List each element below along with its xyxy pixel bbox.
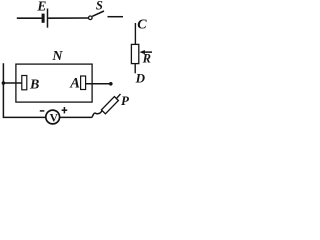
svg-text:V: V	[50, 112, 59, 124]
terminal B	[22, 76, 27, 90]
wire: switch right lead	[108, 16, 124, 18]
terminal A	[81, 76, 86, 90]
wire: rheostat down	[134, 64, 136, 74]
box N	[16, 64, 92, 102]
B label	[29, 78, 39, 93]
svg-text:P: P	[121, 93, 130, 108]
svg-text:S: S	[96, 0, 103, 12]
wire: left vertical + bottom run	[3, 63, 45, 117]
wire: B lead	[3, 82, 21, 84]
node C label	[137, 17, 147, 32]
P label	[121, 93, 130, 108]
voltmeter minus polarity	[40, 110, 45, 112]
wire: battery left lead	[17, 17, 42, 19]
wire: A lead	[86, 83, 111, 85]
svg-text:A: A	[69, 75, 80, 91]
terminal node (right of A lead)	[109, 82, 113, 86]
A label	[69, 75, 80, 91]
arrow of rheostat R	[140, 50, 153, 54]
resistor P (diagonal body)	[100, 94, 121, 114]
svg-text:E: E	[36, 0, 46, 13]
wire: battery to switch	[48, 17, 88, 19]
node D label	[135, 70, 146, 85]
voltmeter V	[46, 110, 60, 124]
R value label	[142, 52, 151, 66]
svg-text:N: N	[51, 49, 63, 64]
wire: C down to rheostat	[134, 23, 136, 45]
svg-text:C: C	[137, 17, 147, 32]
voltmeter plus polarity	[62, 107, 68, 113]
battery E	[36, 0, 47, 28]
N label	[51, 49, 63, 64]
wire: bottom run to P (with s-curve)	[60, 113, 100, 117]
junction node (left)	[2, 81, 6, 85]
svg-text:R: R	[142, 52, 151, 66]
svg-text:D: D	[135, 70, 146, 85]
svg-text:B: B	[29, 78, 39, 93]
switch S	[89, 0, 105, 20]
resistor R (rheostat body)	[131, 44, 138, 63]
